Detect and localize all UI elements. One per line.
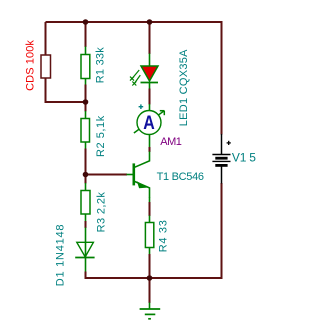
svg-text:R2 5,1k: R2 5,1k [95,115,107,157]
battery V1 lead bottom [221,167,223,184]
LED LED1 body [141,66,158,81]
ammeter AM1 circle [137,111,161,135]
wire D1 to bottom rail [85,257,87,272]
ground symbol bar 2 [145,313,156,315]
wire emitter to R4 [149,197,151,203]
junction dot top R1 [83,19,89,25]
resistor R4 body [145,223,153,248]
svg-text:T1 BC546: T1 BC546 [157,171,204,183]
battery V1 plate 4 [215,164,227,167]
battery V1 plate 2 [215,157,227,160]
wire base [86,174,128,176]
wire R1 to node A [85,78,87,85]
svg-text:AM1: AM1 [160,136,181,148]
wire top rail [46,21,222,23]
wire node A to R2 [85,102,87,112]
wire R4 to bottom rail [149,247,151,255]
wire LED to ammeter [149,83,151,90]
node B junction dot (base) [83,172,89,178]
wire bottom rail [86,277,223,279]
wire CDS branch top [45,22,47,56]
svg-text:LED1 CQX35A: LED1 CQX35A [178,49,190,126]
ammeter AM1 plus [139,104,144,109]
ammeter AM1 arrowhead [160,111,165,116]
transistor T1 emitter lead [135,181,150,197]
svg-text:CDS 100k: CDS 100k [25,40,37,91]
junction dot ground [147,275,153,281]
LED LED1 light arrow 1 [130,70,139,81]
resistor R2 body [81,119,90,143]
ground symbol bar 3 [148,318,151,320]
svg-text:R1 33k: R1 33k [95,47,107,84]
diode D1 body [77,242,94,257]
wire node B to R3 [85,175,87,184]
node A junction dot [83,99,89,105]
wire right rail lower [221,183,223,278]
svg-text:R4 33: R4 33 [158,219,170,252]
wire ground stem [149,278,151,303]
battery V1 plate 3 [212,160,230,162]
resistor R1 body [81,55,90,79]
svg-text:R3 2,2k: R3 2,2k [96,192,108,233]
transistor T1 collector lead [135,152,150,168]
transistor T1 emitter arrowhead [137,181,147,188]
wire LED branch top [149,22,151,55]
junction dot top LED [147,19,153,25]
resistor R3 body [81,191,90,215]
wire right rail upper [221,21,223,135]
ammeter AM1 arrow (under circle) [134,111,164,133]
wire ammeter to collector [149,135,151,148]
wire R3 to D1 [85,214,87,222]
battery V1 lead top [221,134,223,155]
battery V1 plus [227,141,231,145]
svg-text:A: A [143,112,155,134]
ground symbol bar 1 [140,308,161,310]
svg-text:D1 1N4148: D1 1N4148 [54,224,66,286]
wire CDS branch bottom [46,78,86,103]
LED LED1 light arrow 2 [132,75,140,85]
svg-text:V1 5: V1 5 [232,150,256,164]
photoresistor CDS body [41,55,51,78]
battery V1 plate 1 [212,154,230,156]
transistor T1 base bar [133,163,136,185]
wire R2 to node B [85,142,87,150]
diode D1 cathode bar [75,257,94,259]
LED LED1 cathode bar [141,82,159,84]
wire left rail R1 top [85,22,87,48]
